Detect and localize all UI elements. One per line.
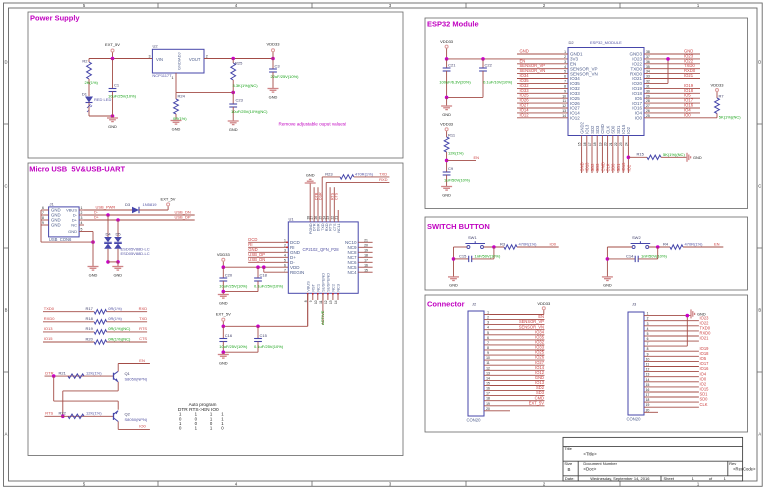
svg-text:Connector: Connector <box>427 300 465 309</box>
svg-text:IO2: IO2 <box>626 126 631 133</box>
svg-text:Wednesday, September 14, 2016: Wednesday, September 14, 2016 <box>590 476 650 481</box>
svg-text:RTS: RTS <box>45 411 53 416</box>
svg-text:3: 3 <box>81 216 83 220</box>
svg-text:D2: D2 <box>569 40 575 45</box>
svg-text:D+: D+ <box>94 215 99 219</box>
svg-text:11: 11 <box>486 361 490 365</box>
svg-text:7: 7 <box>284 268 286 272</box>
svg-text:19: 19 <box>646 403 650 407</box>
svg-text:5: 5 <box>564 70 566 74</box>
svg-text:C14: C14 <box>626 253 634 258</box>
svg-text:16: 16 <box>646 388 650 392</box>
svg-text:GND: GND <box>219 300 228 305</box>
svg-text:GND: GND <box>697 311 706 316</box>
svg-text:35: 35 <box>646 65 650 69</box>
svg-text:10: 10 <box>486 356 490 360</box>
svg-text:16: 16 <box>583 142 587 146</box>
svg-text:15: 15 <box>578 142 582 146</box>
svg-text:R20: R20 <box>86 336 94 341</box>
svg-text:17: 17 <box>646 393 650 397</box>
svg-text:17: 17 <box>486 392 490 396</box>
svg-text:R15: R15 <box>637 152 645 157</box>
svg-text:8: 8 <box>42 216 44 220</box>
svg-text:19: 19 <box>364 248 368 252</box>
svg-text:14: 14 <box>646 378 650 382</box>
svg-text:EN: EN <box>139 358 145 363</box>
svg-text:VOUT: VOUT <box>189 57 201 62</box>
svg-text:VDD33: VDD33 <box>537 301 551 306</box>
svg-text:TXD: TXD <box>379 171 387 176</box>
svg-text:21: 21 <box>364 238 368 242</box>
svg-text:R24: R24 <box>178 94 186 99</box>
svg-text:S8050(NPN): S8050(NPN) <box>125 417 148 422</box>
svg-text:5K(1%)(NC): 5K(1%)(NC) <box>719 115 741 120</box>
svg-text:IO0: IO0 <box>684 112 691 117</box>
svg-text:GND: GND <box>520 49 529 54</box>
svg-text:EXT_5V: EXT_5V <box>529 400 545 405</box>
svg-text:6: 6 <box>284 263 286 267</box>
svg-text:<RevCode>: <RevCode> <box>733 467 756 472</box>
svg-text:26: 26 <box>646 109 650 113</box>
svg-text:C16: C16 <box>225 333 233 338</box>
svg-text:GND: GND <box>442 112 451 117</box>
svg-text:32: 32 <box>646 80 650 84</box>
svg-text:VDD33: VDD33 <box>267 42 281 47</box>
svg-text:10: 10 <box>562 94 566 98</box>
svg-text:10: 10 <box>314 300 318 304</box>
svg-text:VDD33: VDD33 <box>217 252 231 257</box>
svg-text:R17: R17 <box>86 306 94 311</box>
svg-text:GND: GND <box>89 272 98 277</box>
svg-text:CON20: CON20 <box>627 417 642 422</box>
svg-text:8: 8 <box>487 346 489 350</box>
svg-text:470R(1%): 470R(1%) <box>355 171 374 176</box>
svg-text:15: 15 <box>486 382 490 386</box>
svg-text:RXD0: RXD0 <box>44 316 55 321</box>
svg-text:NC11: NC11 <box>337 224 341 233</box>
svg-text:8: 8 <box>304 300 308 302</box>
svg-text:36: 36 <box>646 60 650 64</box>
svg-text:3: 3 <box>647 322 649 326</box>
svg-text:22uF/25V(10%): 22uF/25V(10%) <box>271 74 300 79</box>
svg-text:3: 3 <box>487 321 489 325</box>
svg-text:EN: EN <box>474 155 480 160</box>
svg-text:D3: D3 <box>125 202 131 207</box>
svg-text:0R(1%): 0R(1%) <box>108 306 122 311</box>
svg-text:SWITCH BUTTON: SWITCH BUTTON <box>427 222 490 231</box>
svg-text:Q2: Q2 <box>125 411 131 416</box>
svg-text:470R(1%): 470R(1%) <box>519 241 538 246</box>
svg-text:GND/ADJ: GND/ADJ <box>176 52 181 70</box>
svg-text:4: 4 <box>564 65 566 69</box>
svg-text:B: B <box>568 467 571 472</box>
svg-text:C9: C9 <box>448 166 454 171</box>
svg-text:R11: R11 <box>448 132 456 137</box>
svg-text:ESP32 Module: ESP32 Module <box>427 20 479 29</box>
svg-text:IO15: IO15 <box>44 336 53 341</box>
svg-text:13: 13 <box>486 371 490 375</box>
svg-text:0R(1%): 0R(1%) <box>108 316 122 321</box>
svg-text:IO21: IO21 <box>700 336 710 341</box>
svg-text:12K(1%): 12K(1%) <box>86 370 102 375</box>
svg-text:20: 20 <box>486 407 490 411</box>
svg-text:C1: C1 <box>114 83 120 88</box>
svg-text:EXT_5V: EXT_5V <box>216 312 231 317</box>
svg-text:6: 6 <box>647 337 649 341</box>
svg-text:A: A <box>5 432 8 437</box>
svg-text:20: 20 <box>604 142 608 146</box>
svg-text:12K(1%): 12K(1%) <box>86 411 102 416</box>
svg-text:EXT_5V: EXT_5V <box>161 196 176 201</box>
svg-text:19: 19 <box>598 142 602 146</box>
svg-text:12: 12 <box>562 104 566 108</box>
svg-text:IO2: IO2 <box>626 164 631 171</box>
svg-text:1: 1 <box>284 238 286 242</box>
svg-text:R2: R2 <box>82 59 88 64</box>
svg-text:24: 24 <box>624 142 628 146</box>
svg-text:17: 17 <box>588 142 592 146</box>
svg-text:RXD: RXD <box>139 306 148 311</box>
svg-text:R4: R4 <box>663 241 669 246</box>
svg-text:33: 33 <box>646 75 650 79</box>
svg-text:C: C <box>758 184 761 189</box>
svg-text:5: 5 <box>284 258 286 262</box>
svg-text:17: 17 <box>364 258 368 262</box>
svg-text:1: 1 <box>647 312 649 316</box>
svg-text:D5: D5 <box>115 231 121 236</box>
svg-text:23: 23 <box>619 142 623 146</box>
svg-text:R19: R19 <box>86 326 94 331</box>
svg-text:RTS: RTS <box>139 326 147 331</box>
svg-text:3: 3 <box>564 60 566 64</box>
svg-text:7: 7 <box>647 342 649 346</box>
svg-text:2: 2 <box>206 55 208 59</box>
svg-text:VIN: VIN <box>156 57 163 62</box>
svg-text:Date:: Date: <box>565 476 575 481</box>
svg-text:29: 29 <box>646 94 650 98</box>
svg-text:15: 15 <box>646 383 650 387</box>
svg-text:1: 1 <box>172 76 174 80</box>
svg-text:D: D <box>758 60 761 65</box>
svg-text:37: 37 <box>646 55 650 59</box>
svg-text:C23: C23 <box>236 98 244 103</box>
svg-text:EXT_5V: EXT_5V <box>105 42 120 47</box>
svg-text:R23: R23 <box>325 171 333 176</box>
svg-text:21: 21 <box>334 216 338 220</box>
svg-text:USB_PWR: USB_PWR <box>96 204 116 209</box>
svg-text:9: 9 <box>42 221 44 225</box>
svg-text:DTR: DTR <box>45 370 53 375</box>
svg-text:SW1: SW1 <box>468 235 477 240</box>
svg-text:VDD33: VDD33 <box>440 39 454 44</box>
svg-text:38: 38 <box>646 50 650 54</box>
svg-text:10uF/25V(10%): 10uF/25V(10%) <box>219 344 248 349</box>
svg-text:U2: U2 <box>153 44 159 49</box>
svg-text:25: 25 <box>646 114 650 118</box>
svg-text:GND: GND <box>603 283 612 288</box>
svg-text:GND: GND <box>269 94 278 99</box>
svg-text:USB_DP: USB_DP <box>175 214 191 219</box>
svg-text:3.3K(1%)(NC): 3.3K(1%)(NC) <box>233 83 259 88</box>
svg-text:RXD: RXD <box>379 177 388 182</box>
svg-text:IO12: IO12 <box>570 116 580 121</box>
svg-text:D: D <box>4 60 7 65</box>
svg-text:4: 4 <box>284 253 286 257</box>
svg-text:11: 11 <box>319 300 323 304</box>
svg-text:18: 18 <box>364 253 368 257</box>
svg-text:R25: R25 <box>235 61 243 66</box>
svg-text:2: 2 <box>487 316 489 320</box>
svg-text:12: 12 <box>486 366 490 370</box>
svg-text:C22: C22 <box>485 63 493 68</box>
svg-text:2: 2 <box>284 243 286 247</box>
svg-text:REGIN: REGIN <box>290 270 304 275</box>
svg-text:CP2102_QFN_P28: CP2102_QFN_P28 <box>303 247 340 252</box>
svg-text:20: 20 <box>646 408 650 412</box>
svg-text:12K(1%): 12K(1%) <box>448 151 464 156</box>
svg-text:1: 1 <box>81 206 83 210</box>
svg-text:8: 8 <box>647 347 649 351</box>
svg-text:GND: GND <box>108 124 117 129</box>
svg-text:Q1: Q1 <box>125 371 131 376</box>
svg-text:C18: C18 <box>260 273 268 278</box>
svg-text:4: 4 <box>647 327 649 331</box>
svg-text:R21: R21 <box>59 370 67 375</box>
svg-text:31: 31 <box>646 85 650 89</box>
svg-text:7: 7 <box>487 341 489 345</box>
svg-text:Sheet: Sheet <box>664 476 675 481</box>
svg-text:0.1uF/25V(10%): 0.1uF/25V(10%) <box>254 283 284 288</box>
svg-text:DTR RTS->EN IO0: DTR RTS->EN IO0 <box>178 407 219 413</box>
svg-text:GND: GND <box>449 283 458 288</box>
svg-text:GND: GND <box>51 223 61 228</box>
svg-text:R18: R18 <box>86 316 94 321</box>
svg-text:C15: C15 <box>260 333 268 338</box>
svg-text:C3: C3 <box>275 64 281 69</box>
svg-text:470R(1%): 470R(1%) <box>685 241 704 246</box>
svg-text:NC3: NC3 <box>336 284 341 292</box>
svg-text:5: 5 <box>81 227 83 231</box>
svg-text:GND: GND <box>229 127 238 132</box>
svg-text:28: 28 <box>646 99 650 103</box>
svg-text:R3: R3 <box>500 241 506 246</box>
svg-text:13: 13 <box>329 300 333 304</box>
svg-text:ESP32_MODULE: ESP32_MODULE <box>590 40 622 45</box>
svg-text:3: 3 <box>149 55 151 59</box>
svg-text:34: 34 <box>646 70 650 74</box>
svg-text:7: 7 <box>42 211 44 215</box>
svg-text:TXD0: TXD0 <box>44 306 55 311</box>
svg-text:8: 8 <box>564 85 566 89</box>
svg-text:0.1uF/25V(10%): 0.1uF/25V(10%) <box>254 344 284 349</box>
svg-text:GND: GND <box>68 229 77 234</box>
svg-text:VDD33: VDD33 <box>711 82 725 87</box>
svg-text:1: 1 <box>564 50 566 54</box>
svg-text:USB_CON6: USB_CON6 <box>49 237 72 242</box>
svg-text:4: 4 <box>487 326 489 330</box>
svg-text:2K(1%): 2K(1%) <box>85 80 99 85</box>
svg-text:1N5819: 1N5819 <box>143 202 158 207</box>
svg-text:D4: D4 <box>105 231 111 236</box>
svg-text:20: 20 <box>364 243 368 247</box>
svg-text:GND: GND <box>172 126 181 131</box>
svg-text:CTS: CTS <box>139 336 147 341</box>
svg-text:IO21: IO21 <box>684 73 694 78</box>
svg-text:9: 9 <box>564 89 566 93</box>
svg-text:0.1uF/10V(10%): 0.1uF/10V(10%) <box>483 79 513 84</box>
svg-text:14: 14 <box>562 114 566 118</box>
svg-text:GND: GND <box>693 155 702 160</box>
svg-text:1: 1 <box>487 311 489 315</box>
svg-text:GND: GND <box>113 272 122 277</box>
svg-text:CLK: CLK <box>700 402 708 407</box>
svg-text:14: 14 <box>486 376 490 380</box>
svg-text:NC: NC <box>71 223 77 228</box>
svg-text:10uF/25V(10%): 10uF/25V(10%) <box>108 94 137 99</box>
svg-text:0R(1%)(NC): 0R(1%)(NC) <box>108 326 131 331</box>
svg-text:10uF/25V(10%)(NC): 10uF/25V(10%)(NC) <box>231 109 268 114</box>
svg-text:11: 11 <box>562 99 566 103</box>
svg-text:1nF/50V(10%): 1nF/50V(10%) <box>475 253 501 258</box>
svg-text:IO0: IO0 <box>139 424 146 429</box>
svg-text:<Title>: <Title> <box>583 451 597 456</box>
svg-text:GND: GND <box>306 173 315 178</box>
svg-text:2: 2 <box>81 211 83 215</box>
svg-text:IO12: IO12 <box>520 112 530 117</box>
svg-text:SW2: SW2 <box>632 235 641 240</box>
svg-text:6: 6 <box>487 336 489 340</box>
svg-text:R7: R7 <box>719 93 725 98</box>
svg-text:CON20: CON20 <box>467 418 482 423</box>
svg-text:IO13: IO13 <box>44 326 53 331</box>
svg-text:1uF/50V(10%): 1uF/50V(10%) <box>444 177 470 182</box>
svg-text:18: 18 <box>646 398 650 402</box>
svg-text:22: 22 <box>614 142 618 146</box>
svg-text:9: 9 <box>647 352 649 356</box>
svg-text:12: 12 <box>324 300 328 304</box>
svg-text:21: 21 <box>609 142 613 146</box>
svg-text:2: 2 <box>647 317 649 321</box>
svg-text:D1: D1 <box>82 92 88 97</box>
svg-text:14: 14 <box>334 300 338 304</box>
svg-text:GND: GND <box>219 360 228 365</box>
svg-text:Remove adjustable ouput values: Remove adjustable ouput values! <box>279 122 347 127</box>
svg-text:12: 12 <box>646 368 650 372</box>
svg-text:7: 7 <box>564 80 566 84</box>
svg-text:Rev: Rev <box>729 461 736 466</box>
svg-text:5K(1%)(NC): 5K(1%)(NC) <box>663 152 685 157</box>
svg-text:30: 30 <box>646 89 650 93</box>
svg-text:6: 6 <box>42 206 44 210</box>
svg-text:<Doc>: <Doc> <box>583 467 596 472</box>
svg-text:A: A <box>758 432 761 437</box>
svg-text:Auto program: Auto program <box>189 402 217 407</box>
svg-text:Title: Title <box>564 446 572 451</box>
svg-text:9: 9 <box>487 351 489 355</box>
svg-text:10: 10 <box>646 357 650 361</box>
svg-text:U1: U1 <box>289 216 295 221</box>
svg-text:C21: C21 <box>448 63 456 68</box>
svg-text:10uF/25V(10%): 10uF/25V(10%) <box>219 283 248 288</box>
svg-text:0R(1%)(NC): 0R(1%)(NC) <box>108 336 131 341</box>
svg-text:ESD05V88D-LC: ESD05V88D-LC <box>121 251 150 256</box>
svg-text:TXD: TXD <box>139 316 147 321</box>
svg-text:2: 2 <box>564 55 566 59</box>
svg-text:B: B <box>758 308 761 313</box>
svg-text:16: 16 <box>486 387 490 391</box>
svg-text:CTS: CTS <box>335 192 339 200</box>
svg-text:B: B <box>5 308 8 313</box>
svg-text:USB_DN: USB_DN <box>248 257 265 262</box>
svg-text:13: 13 <box>646 373 650 377</box>
svg-text:5: 5 <box>647 332 649 336</box>
svg-text:VDD33: VDD33 <box>440 122 454 127</box>
svg-text:Size: Size <box>564 461 573 466</box>
svg-text:ACTIVE: ACTIVE <box>320 310 325 325</box>
svg-text:IO0: IO0 <box>550 241 557 246</box>
svg-text:EN: EN <box>714 241 720 246</box>
svg-text:C: C <box>4 184 7 189</box>
svg-text:NC4: NC4 <box>347 270 356 275</box>
svg-text:Document Number: Document Number <box>583 461 617 466</box>
svg-text:13: 13 <box>562 109 566 113</box>
svg-text:NCP1117T: NCP1117T <box>152 73 172 78</box>
svg-text:11: 11 <box>646 363 650 367</box>
svg-text:18: 18 <box>593 142 597 146</box>
svg-text:6: 6 <box>564 75 566 79</box>
svg-text:5: 5 <box>487 331 489 335</box>
svg-text:GND: GND <box>442 192 451 197</box>
svg-text:IO0: IO0 <box>635 116 643 121</box>
svg-text:16: 16 <box>364 263 368 267</box>
svg-text:C20: C20 <box>225 273 233 278</box>
svg-text:15: 15 <box>364 268 368 272</box>
svg-text:100uF/6.3V(20%): 100uF/6.3V(20%) <box>439 79 471 84</box>
svg-text:27: 27 <box>646 104 650 108</box>
svg-text:S8050(NPN): S8050(NPN) <box>125 377 148 382</box>
svg-text:18: 18 <box>486 397 490 401</box>
svg-text:19: 19 <box>486 402 490 406</box>
svg-text:3: 3 <box>284 248 286 252</box>
svg-text:R22: R22 <box>59 411 67 416</box>
svg-text:Power Supply: Power Supply <box>30 14 80 23</box>
svg-text:C15: C15 <box>459 253 467 258</box>
svg-text:1nF/50V(10%): 1nF/50V(10%) <box>641 253 667 258</box>
svg-text:Micro USB 5V&USB-UART: Micro USB 5V&USB-UART <box>29 164 125 173</box>
svg-text:9: 9 <box>309 300 313 302</box>
svg-text:4: 4 <box>81 221 83 225</box>
